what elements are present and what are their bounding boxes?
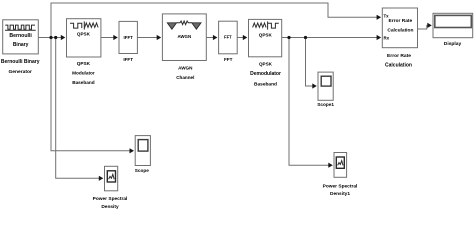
- svg-text:Scope: Scope: [135, 168, 149, 173]
- svg-text:Density1: Density1: [330, 191, 350, 197]
- svg-text:FFT: FFT: [224, 57, 233, 62]
- svg-text:Power Spectral: Power Spectral: [323, 183, 358, 189]
- svg-text:AWGN: AWGN: [178, 66, 193, 71]
- svg-text:Scope1: Scope1: [317, 102, 334, 107]
- svg-text:Modulator: Modulator: [72, 71, 95, 76]
- svg-text:Power Spectral: Power Spectral: [93, 196, 128, 202]
- svg-text:Tx: Tx: [384, 13, 390, 18]
- svg-text:Baseband: Baseband: [72, 80, 95, 85]
- svg-text:Channel: Channel: [176, 75, 194, 80]
- svg-text:Calculation: Calculation: [385, 62, 412, 68]
- svg-text:Binary: Binary: [13, 42, 29, 48]
- svg-text:Density: Density: [101, 204, 119, 210]
- svg-text:IFFT: IFFT: [124, 35, 134, 40]
- svg-text:QPSK: QPSK: [77, 31, 91, 36]
- svg-text:FFT: FFT: [224, 34, 232, 39]
- svg-text:Demodulator: Demodulator: [250, 71, 281, 77]
- svg-text:Baseband: Baseband: [254, 82, 277, 88]
- svg-text:Error Rate: Error Rate: [387, 53, 411, 59]
- svg-text:Display: Display: [444, 41, 462, 47]
- svg-text:Error Rate: Error Rate: [389, 18, 413, 24]
- svg-text:Bernoulli Binary: Bernoulli Binary: [1, 59, 40, 65]
- svg-text:AWGN: AWGN: [177, 34, 191, 39]
- svg-text:Calculation: Calculation: [387, 27, 413, 33]
- svg-text:QPSK: QPSK: [259, 61, 273, 66]
- svg-text:Rx: Rx: [384, 35, 390, 40]
- svg-text:IFFT: IFFT: [123, 57, 133, 62]
- svg-text:QPSK: QPSK: [77, 61, 91, 66]
- svg-text:Generator: Generator: [9, 69, 32, 75]
- svg-text:QPSK: QPSK: [259, 33, 273, 38]
- svg-text:Bernoulli: Bernoulli: [9, 33, 32, 39]
